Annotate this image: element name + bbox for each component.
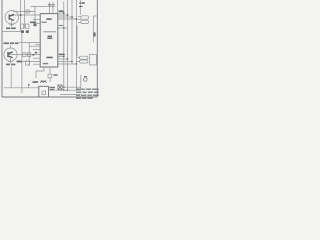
- bus wire x72: [71, 0, 73, 64]
- bus wire x76.4: [75, 0, 77, 90]
- IC right pin stub y61.5: [58, 61, 72, 63]
- transformer T502 core mark: [42, 91, 46, 95]
- IC right pin stub y28: [58, 27, 68, 29]
- capacitor C503 mark: [21, 30, 24, 33]
- border frame bottom: [2, 96, 97, 98]
- wire from IC bottom left: [36, 67, 44, 78]
- label Q501: [6, 27, 16, 29]
- resistor R506 box: [26, 24, 29, 28]
- IC left pin stub y58.2: [33, 57, 40, 59]
- label right of IC top: [59, 10, 64, 12]
- IC right pin stub y15: [58, 14, 68, 16]
- wire horizontal top y6.6: [31, 6, 48, 8]
- bus wire x67.6: [67, 0, 69, 90]
- IC left pin stub y42.5: [19, 42, 40, 44]
- IC right pin stub y56.5: [58, 56, 64, 58]
- caption text row4: [76, 98, 81, 99]
- label near C510: [82, 2, 85, 4]
- diode D501 bottom right: [84, 77, 88, 82]
- IC left pin stub y49.6: [33, 49, 40, 51]
- wire vertical x77 long: [76, 25, 78, 56]
- label IC501 row2: [41, 22, 47, 23]
- transistor Q502 symbol: [7, 51, 13, 58]
- wire stub y44.6: [35, 44, 40, 46]
- wire horizontal bottom y87.8: [4, 87, 39, 89]
- capacitor C505 on Q502 line: [23, 53, 27, 57]
- caption text row3: [76, 95, 80, 96]
- capacitor C502 plates: [51, 5, 54, 7]
- wire vertical x80.8 bottom: [80, 75, 82, 90]
- label IC501: [46, 18, 51, 20]
- IC right pin stub y64: [58, 63, 77, 65]
- label y60 left: [17, 61, 22, 63]
- label near R505: [30, 22, 36, 24]
- label X501: [54, 74, 58, 76]
- transistor Q501 symbol: [9, 14, 15, 21]
- IC right pin stub y13: [58, 12, 64, 14]
- shield box right: [93, 16, 97, 43]
- wire vertical x20.6 top: [20, 0, 22, 31]
- junction dot base Q501: [20, 14, 22, 16]
- IC left pin stub y23.5: [33, 23, 40, 25]
- transistor Q502 circle: [4, 48, 17, 61]
- IC right pin stub y19: [58, 18, 77, 20]
- wire horizontal y31.4: [2, 30, 21, 32]
- transformer box T502 bottom: [39, 86, 49, 97]
- connector CN501 top right: [78, 16, 89, 24]
- border frame left: [1, 0, 3, 97]
- IC right pin stub y59: [58, 58, 68, 60]
- resistor R503 box: [26, 10, 29, 13]
- capacitor C501 top legs: [49, 2, 51, 14]
- transistor Q501 wires: [11, 19, 13, 27]
- label inside IC row4: [43, 63, 48, 64]
- wire vertical x80.3 top right: [79, 0, 81, 15]
- transistor Q502 wires: [10, 45, 12, 48]
- wire vertical x29.2 beside IC: [28, 43, 30, 67]
- capacitor C512 blob on shield: [94, 33, 96, 37]
- junction dots right bus: [60, 12, 77, 64]
- capacitor C502 top legs: [52, 2, 54, 14]
- wire horizontal y94.6 bottom: [60, 94, 81, 96]
- label text left mid: [4, 42, 19, 44]
- junction dot y54.6 wire: [33, 54, 35, 56]
- capacitor C501 plates: [48, 5, 55, 7]
- IC left pin stub y61.4: [22, 60, 40, 62]
- resistor R509 box: [26, 61, 30, 65]
- connector CN502 mid right: [76, 56, 88, 63]
- wire horizontal y90.2 bottom: [49, 89, 81, 91]
- IC left pin stub y64.2: [33, 63, 40, 65]
- IC left pin stub y46.2: [29, 45, 40, 47]
- resistor mark near Q502 line: [35, 52, 37, 54]
- caption text row2: [76, 92, 81, 93]
- resistor R505 box: [21, 24, 24, 28]
- crystal box X502 with X: [58, 85, 62, 90]
- junction dots bottom: [63, 87, 68, 91]
- IC right pin stub y25.5: [58, 25, 64, 27]
- label right of T502: [50, 87, 56, 91]
- label left of coil: [33, 81, 39, 83]
- IC right pin stub y17: [58, 16, 72, 18]
- wire horizontal y87.2 bottom: [62, 86, 81, 88]
- paper background: [0, 0, 100, 100]
- capacitor C504 mark: [26, 30, 29, 33]
- caption text row1: [76, 89, 99, 99]
- crystal X501 below IC: [48, 67, 52, 82]
- wire vertical x35 top: [34, 7, 36, 24]
- capacitor C507 blob: [34, 24, 37, 27]
- capacitor C510 top right symbol: [79, 3, 83, 7]
- capacitor C506 on Q502 line: [27, 53, 30, 57]
- wire vertical x28.7: [28, 85, 30, 88]
- wire vertical x57.5 top: [57, 0, 59, 14]
- wire vertical x11.2 lower left: [10, 67, 12, 88]
- label right of IC bottom: [59, 54, 65, 56]
- border frame right: [96, 0, 98, 97]
- bus wire x63.8: [63, 2, 65, 91]
- IC left pin stub y19.5: [33, 19, 40, 21]
- label inside IC row3: [46, 57, 52, 59]
- block box TO TUNER: [90, 54, 97, 65]
- junction dot x28.7: [28, 84, 30, 86]
- transistor Q501 circle: [5, 10, 19, 24]
- wire vertical x24.4 top: [23, 0, 25, 29]
- coil T501: [41, 81, 47, 83]
- label under Q502: [6, 64, 15, 66]
- label VIDEO CHROMA inside IC: [43, 31, 56, 32]
- IC501 body: [40, 14, 58, 67]
- wire vertical x21.9: [21, 33, 23, 93]
